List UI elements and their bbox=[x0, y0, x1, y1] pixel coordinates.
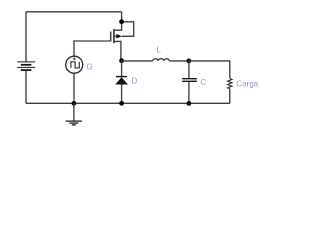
junction dot diode to rail bbox=[119, 101, 124, 106]
Q1 body-to-top loop bbox=[122, 22, 134, 37]
wire top drop to MOSFET top node bbox=[121, 12, 123, 22]
C1 bottom plate bbox=[182, 80, 197, 82]
junction dot LC node bbox=[187, 59, 192, 64]
capacitor C1 bbox=[182, 61, 197, 104]
ground stub bbox=[73, 103, 75, 121]
C1 top plate bbox=[182, 78, 197, 80]
G square wave glyph bbox=[71, 62, 79, 68]
wire left rail (battery top lead) bbox=[25, 12, 27, 62]
resistor Carga (load) bbox=[228, 78, 232, 103]
ground bbox=[66, 121, 82, 125]
wire G bottom lead bbox=[73, 73, 75, 103]
transistor Q1 (P-MOSFET) bbox=[111, 22, 134, 61]
C1 bottom lead bbox=[188, 82, 190, 104]
junction dot switch node bbox=[119, 58, 124, 63]
inductor L1 bbox=[153, 59, 170, 61]
wire LC node to load bbox=[189, 61, 230, 79]
source G (pulse generator) bbox=[66, 56, 83, 73]
Q1 gate bar bbox=[110, 32, 112, 42]
wire top rail bbox=[26, 11, 122, 13]
wire bottom rail bbox=[26, 102, 230, 104]
D1 triangle bbox=[115, 77, 128, 84]
diode D1 bbox=[115, 61, 128, 104]
wire switch node to inductor bbox=[122, 60, 153, 62]
svg-text:Carga: Carga bbox=[236, 80, 258, 89]
G plus sign bbox=[73, 58, 76, 60]
wire gate lead bbox=[74, 41, 111, 56]
svg-text:D: D bbox=[132, 76, 138, 85]
Q1 upper lead to channel bbox=[114, 22, 122, 31]
svg-text:G: G bbox=[87, 62, 93, 71]
Q1 lower (drain) lead down to switch node bbox=[114, 41, 121, 60]
Q1 body arrow bbox=[116, 34, 122, 39]
junction dot capacitor to rail bbox=[187, 101, 192, 106]
junction dot at ground tap bbox=[72, 101, 77, 106]
Q1 body stub bbox=[114, 35, 117, 37]
wire battery bottom lead bbox=[25, 70, 27, 103]
svg-text:L: L bbox=[156, 46, 161, 55]
battery V1 bbox=[17, 62, 35, 70]
Q1 channel bar bbox=[113, 29, 115, 43]
wire inductor to LC node bbox=[169, 60, 189, 62]
C1 top lead bbox=[188, 61, 190, 78]
D1 cathode bar bbox=[116, 76, 127, 78]
load bottom lead bbox=[229, 89, 231, 104]
D1 bottom lead bbox=[121, 85, 123, 104]
junction dot top node bbox=[119, 19, 124, 24]
svg-text:C: C bbox=[200, 78, 206, 87]
D1 top lead bbox=[121, 61, 123, 76]
